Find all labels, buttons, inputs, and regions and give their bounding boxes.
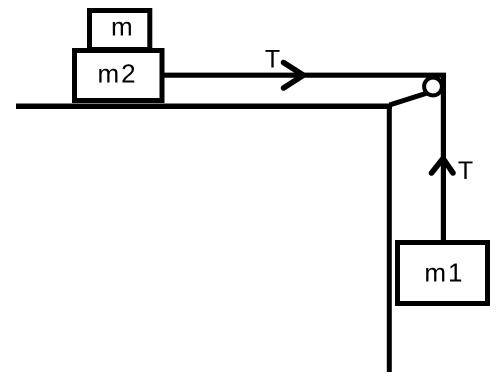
wire: pulley mount diagonal <box>390 93 429 105</box>
svg-text:m1: m1 <box>424 258 464 288</box>
block m1 <box>398 243 488 304</box>
svg-text:T: T <box>265 46 280 74</box>
wire: table vertical edge <box>387 104 392 372</box>
svg-text:T: T <box>458 157 473 185</box>
svg-text:m2: m2 <box>97 59 137 89</box>
block m2 <box>75 51 163 101</box>
wire: rope from m2 over pulley corner down <box>164 75 443 245</box>
pulley P1 <box>424 78 442 96</box>
arrowhead: tension arrow on vertical rope <box>432 159 454 174</box>
block m <box>90 11 150 50</box>
wire: table surface line <box>16 103 392 109</box>
arrowhead: tension arrow on horizontal rope <box>284 63 304 89</box>
svg-text:m: m <box>111 12 133 42</box>
